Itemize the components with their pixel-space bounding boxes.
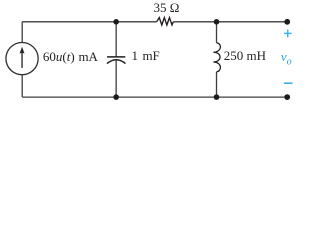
label 60u(t) mA [43,49,98,65]
terminal dot bottom right [284,94,290,100]
resistor R1 zigzag [157,18,174,25]
capacitor C1 top plate [107,56,125,58]
wire top-right segment (resistor to right terminal) [173,21,287,23]
plus sign (blue) [284,30,292,38]
label 250 mH [224,48,266,64]
wire inductor branch lower [216,72,218,97]
wire capacitor branch upper [115,22,117,57]
node junction dot top inductor [214,19,220,25]
terminal dot top right [284,19,290,25]
node junction dot bottom capacitor [113,94,119,100]
node junction dot bottom inductor [214,94,220,100]
current source I1 circle [6,43,38,75]
minus sign (blue) [284,82,293,84]
wire bottom horizontal [22,96,287,98]
current source I1 arrow [20,47,25,68]
inductor L1 coil [213,43,220,72]
capacitor C1 bottom curved plate [107,60,126,64]
wire left vertical below source [21,75,23,97]
wire left vertical above source [21,22,23,43]
label vo (blue) [281,49,292,68]
node junction dot top capacitor [113,19,119,25]
wire top-left horizontal segment [22,21,156,23]
label 35 ohm [154,0,180,16]
wire capacitor branch lower [115,60,117,97]
wire inductor branch upper [216,22,218,43]
label 1 mF [132,48,160,64]
